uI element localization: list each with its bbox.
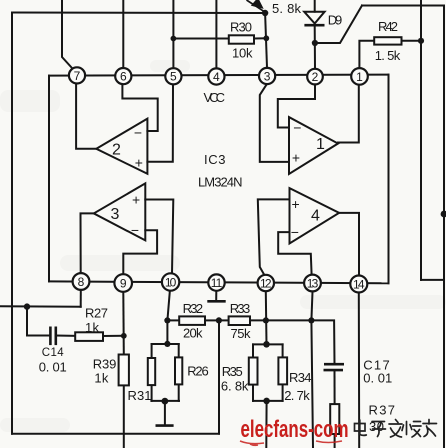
wire C14 to R27	[56, 335, 75, 337]
svg-text:+: +	[292, 196, 300, 212]
svg-text:R30: R30	[230, 20, 252, 35]
svg-text:1k: 1k	[94, 371, 109, 386]
svg-text:4: 4	[311, 207, 320, 224]
pin 6	[115, 68, 131, 84]
wire R34 bottom lead	[282, 384, 284, 401]
svg-text:1: 1	[316, 136, 325, 153]
pin 11	[208, 274, 224, 290]
svg-text:−: −	[293, 120, 301, 136]
wire left edge horizontal to pin8	[0, 305, 81, 308]
op-amp U1b triangle (section 4)	[290, 188, 340, 243]
wire R32 right lead	[205, 319, 219, 321]
svg-text:20k: 20k	[183, 326, 203, 341]
wire R33 right lead	[250, 319, 266, 321]
wire IC bottom edge through pins 8..14	[49, 281, 389, 283]
wire op-amp4 non-inverting input to pin12	[258, 199, 290, 275]
wire R30 right branch	[254, 37, 266, 39]
wire op-amp1 non-inverting input to pin3	[260, 85, 289, 162]
wire pin12 net to image bottom	[265, 401, 267, 448]
svg-text:−: −	[131, 222, 139, 238]
resistor R30 body	[229, 35, 254, 43]
svg-text:2: 2	[312, 70, 319, 84]
wire pin12 column down	[265, 292, 268, 345]
wire IC left edge	[48, 76, 50, 282]
svg-text:6: 6	[120, 70, 127, 84]
pin 1	[351, 68, 368, 85]
svg-text:R33: R33	[230, 301, 251, 316]
svg-text:11: 11	[211, 276, 223, 290]
pin 13	[304, 275, 321, 292]
wire top stub to pin5	[172, 0, 174, 68]
wire resistor rail y=320 R32 left lead	[167, 319, 179, 321]
wire R31/R26 top node	[152, 343, 179, 345]
wire bottom rail up-leg to R32/R33 node	[218, 320, 220, 433]
wire R42 right to right column	[402, 40, 422, 42]
svg-text:75k: 75k	[231, 326, 252, 341]
svg-text:2: 2	[112, 141, 121, 158]
resistor R32 body	[179, 316, 205, 325]
svg-text:0. 01: 0. 01	[39, 359, 67, 374]
wire C14 branch down	[26, 307, 28, 336]
wire top-right horizontal rail	[362, 5, 444, 7]
wire R35/R34 bottom node	[253, 400, 283, 402]
svg-text:5. 8k: 5. 8k	[272, 1, 302, 16]
resistor R39 body	[119, 355, 129, 386]
svg-text:elecfans-com: elecfans-com	[241, 416, 349, 443]
wire D9 top stub	[314, 0, 316, 12]
op-amp U1c triangle (section 2)	[96, 119, 147, 174]
wire D9 junction to diagonal	[315, 6, 362, 44]
pin 3	[259, 68, 275, 84]
svg-text:VCC: VCC	[204, 90, 226, 105]
svg-text:1: 1	[356, 70, 363, 84]
wire op-amp4 inverting input to pin13	[278, 232, 311, 274]
svg-text:9: 9	[120, 276, 127, 290]
capacitor C17	[324, 364, 345, 370]
wire op-amp4 output to pin14	[339, 213, 359, 275]
wire rail pin12-col to pin13-col	[266, 319, 312, 321]
resistor R33 body	[229, 316, 250, 325]
char zi	[372, 422, 386, 437]
wire top-left horizontal rail	[12, 12, 265, 15]
wire op-amp3 inverting input to pin9	[123, 230, 157, 274]
pin 4	[208, 68, 224, 84]
svg-text:IC3: IC3	[204, 152, 226, 167]
svg-text:LM324N: LM324N	[198, 174, 243, 189]
svg-text:13: 13	[307, 276, 319, 290]
pin 7	[69, 67, 85, 83]
svg-text:+: +	[132, 192, 140, 208]
wire op-amp1 output to pin1	[338, 85, 359, 143]
svg-text:R34: R34	[289, 370, 312, 385]
wire R31 top lead	[151, 344, 153, 358]
wire right edge vertical	[443, 6, 445, 448]
op-amp U1d triangle (section 3)	[94, 183, 146, 240]
svg-text:10: 10	[165, 275, 177, 289]
svg-text:0. 01: 0. 01	[363, 371, 392, 386]
char you	[423, 420, 437, 437]
svg-text:4: 4	[213, 70, 220, 84]
wire R33 left lead	[219, 319, 229, 321]
wire R42 left to pin1	[359, 41, 374, 68]
wire op-amp2 inverting input loop to pin6	[122, 85, 157, 132]
wire R35 bottom lead	[252, 385, 254, 401]
wire C17 bottom to resistor	[334, 371, 336, 405]
wire R34 top lead	[282, 344, 284, 357]
ground below R31/R26	[156, 424, 174, 427]
svg-text:5: 5	[170, 70, 177, 84]
svg-text:1k: 1k	[85, 320, 100, 335]
wire pin11 ground stub	[215, 291, 217, 300]
wire left border vertical	[11, 13, 13, 434]
wire below bottom resistor to image bottom	[334, 434, 336, 448]
resistor R31 body	[148, 358, 155, 385]
svg-text:14: 14	[353, 277, 365, 291]
wire bottom rail	[12, 433, 219, 435]
svg-text:+: +	[135, 155, 143, 171]
wire pin9 column down	[122, 292, 125, 355]
wire op-amp3 output to pin8	[81, 213, 94, 273]
wire rail to C17 branch corner	[311, 320, 334, 363]
watermark elecfans.com logo	[240, 416, 349, 445]
wire R32 node down to R31/R26 top node	[166, 320, 168, 344]
wire op-amp2 output to pin7	[76, 84, 96, 149]
resistor R37 body (bottom, partially clipped)	[330, 404, 339, 434]
resistor R26 body	[175, 357, 182, 384]
svg-text:−: −	[291, 224, 299, 240]
resistor R35 body	[249, 358, 258, 385]
svg-text:R39: R39	[93, 357, 117, 372]
pin 10	[162, 273, 179, 290]
svg-text:3: 3	[264, 69, 271, 83]
svg-text:R26: R26	[187, 363, 209, 378]
ground at pin11	[207, 300, 225, 303]
wire R30 left branch	[173, 38, 228, 40]
char shao	[402, 422, 421, 438]
wire R26 top lead	[178, 344, 180, 357]
svg-text:−: −	[134, 124, 142, 140]
wire ground stub below R31/R26	[164, 401, 166, 425]
svg-text:C14: C14	[42, 347, 65, 359]
wire op-amp3 non-inverting input to pin10	[145, 200, 173, 274]
svg-text:R42: R42	[378, 19, 398, 34]
wire corner x=421 to right edge	[421, 279, 444, 281]
wire pin10 column to R32 node	[167, 292, 169, 321]
wire top stub to pin6	[122, 0, 124, 68]
pin 14	[350, 276, 367, 293]
wire pin8 lower stub	[80, 290, 82, 307]
wire R35 top lead	[252, 344, 254, 357]
capacitor C14	[50, 327, 55, 346]
wire D9 cathode to pin2	[314, 26, 316, 68]
resistor R34 body	[278, 357, 287, 384]
wire R39 bottom to image bottom	[123, 385, 125, 448]
svg-text:2. 7k: 2. 7k	[284, 388, 310, 403]
wire C14 left lead	[27, 335, 50, 337]
pin 8	[73, 273, 90, 290]
svg-text:12: 12	[260, 276, 272, 290]
svg-text:R31: R31	[128, 388, 152, 403]
svg-text:R27: R27	[85, 306, 108, 321]
svg-text:R35: R35	[222, 364, 243, 379]
svg-text:10k: 10k	[232, 46, 253, 61]
pin 5	[165, 68, 181, 84]
pin 12	[258, 275, 274, 291]
op-amp section numbers	[111, 136, 326, 224]
char dian	[355, 420, 367, 435]
svg-text:+: +	[292, 150, 300, 166]
wire top stub to pin7	[62, 0, 72, 68]
wire R31/R26 bottom node	[151, 400, 179, 402]
pin number digits	[74, 69, 365, 292]
op-amp polarity signs	[131, 120, 301, 241]
wire right column x=421	[420, 0, 422, 280]
wire R35/R34 top node	[253, 343, 283, 345]
wire IC top edge through pins 7..1	[49, 75, 389, 76]
diode D9	[304, 12, 324, 26]
arrow annotation at 5.8k node	[247, 0, 265, 12]
IC pin circles top row	[69, 67, 368, 292]
resistor R27 body	[75, 332, 103, 341]
svg-text:R32: R32	[183, 301, 204, 316]
resistor R42 body	[374, 37, 401, 44]
op-amp U1a triangle (section 1)	[289, 117, 338, 174]
svg-text:R37: R37	[369, 403, 396, 418]
wire op-amp1 inverting input loop to pin2	[278, 85, 315, 127]
wire IC right edge	[388, 75, 390, 284]
wire R26 bottom lead	[178, 384, 180, 401]
pin 2	[307, 69, 323, 85]
svg-text:8: 8	[78, 275, 85, 289]
wire pin3 column from top rail	[265, 13, 267, 67]
svg-text:7: 7	[74, 69, 81, 83]
wire R27 to R39 node	[103, 335, 124, 337]
watermark chinese characters 电子发烧友 (drawn strokes)	[355, 420, 437, 438]
wire pin13 column down to image bottom	[311, 292, 313, 448]
wire op-amp2 non-inverting input to pin5	[147, 85, 173, 162]
pin 9	[114, 274, 132, 292]
svg-text:D9: D9	[328, 13, 343, 28]
svg-text:6. 8k: 6. 8k	[221, 379, 249, 394]
char fa	[389, 420, 402, 438]
wire top stub to pin4 (VCC)	[215, 0, 217, 68]
svg-text:3: 3	[111, 206, 120, 223]
wire R31 bottom lead	[151, 385, 153, 401]
svg-text:1. 5k: 1. 5k	[375, 48, 401, 63]
wire pin14 column down to image bottom	[358, 293, 360, 448]
